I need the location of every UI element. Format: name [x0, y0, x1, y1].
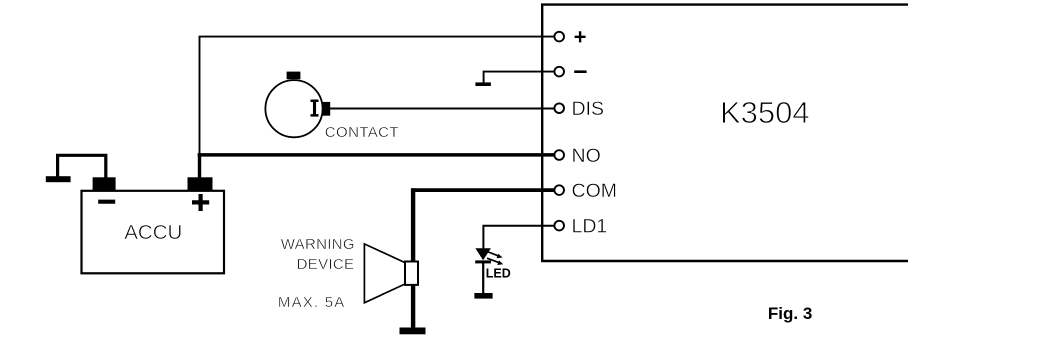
ground at LED — [474, 293, 492, 299]
wire LED to ground — [482, 262, 484, 294]
battery - terminal block — [93, 177, 116, 191]
wire pin - to ground — [484, 72, 554, 83]
LED D1 anode triangle — [475, 248, 491, 260]
svg-text:DEVICE: DEVICE — [297, 256, 355, 273]
wire COM net (thick) warning device to pin COM — [412, 188, 554, 192]
ground at pin - — [475, 82, 491, 86]
ground at battery - — [46, 176, 71, 182]
warning device driver element — [405, 262, 418, 285]
pin - terminal circle — [554, 67, 564, 77]
battery - polarity mark — [98, 200, 115, 204]
svg-text:CONTACT: CONTACT — [325, 124, 399, 141]
svg-text:LED: LED — [486, 266, 511, 280]
svg-text:NO: NO — [572, 145, 601, 167]
LED emission arrows — [487, 252, 503, 266]
svg-text:COM: COM — [572, 180, 618, 202]
svg-text:LD1: LD1 — [572, 216, 608, 238]
pin DIS terminal circle — [554, 103, 564, 113]
module U1 K3504 outline — [541, 4, 908, 262]
wire pin LD1 to LED — [483, 226, 554, 249]
svg-text:K3504: K3504 — [720, 95, 810, 130]
pin NO terminal circle — [554, 150, 564, 160]
wire battery + to pin + — [200, 37, 554, 154]
wire NO net (thick) battery + to pin NO — [198, 153, 554, 157]
contact S1 circle — [265, 80, 322, 137]
warning device LS1 horn triangle — [364, 244, 405, 303]
battery + terminal block — [188, 177, 213, 191]
pin COM terminal circle — [554, 185, 564, 195]
pin LD1 terminal circle — [554, 221, 564, 231]
svg-text:DIS: DIS — [572, 98, 605, 120]
LED D1 cathode bar — [475, 260, 491, 263]
svg-text:WARNING: WARNING — [281, 236, 355, 253]
pin + label — [575, 31, 586, 42]
wire battery - to ground (thick) — [58, 155, 106, 179]
wire contact to pin DIS — [330, 108, 555, 110]
contact top tab — [287, 72, 301, 80]
svg-text:MAX. 5A: MAX. 5A — [278, 294, 346, 311]
svg-text:ACCU: ACCU — [124, 221, 182, 244]
ground at warning device — [400, 328, 426, 335]
wire junction battery + vertical thick segment — [198, 153, 201, 179]
contact right tab — [322, 102, 330, 116]
contact moving blade I — [311, 101, 319, 116]
wire warning device vertical (thick) — [411, 188, 415, 329]
battery BT1 ACCU body — [82, 191, 225, 273]
pin - label — [574, 70, 586, 73]
svg-text:Fig. 3: Fig. 3 — [768, 304, 812, 323]
pin + terminal circle — [554, 32, 564, 42]
battery + polarity mark — [192, 194, 209, 211]
